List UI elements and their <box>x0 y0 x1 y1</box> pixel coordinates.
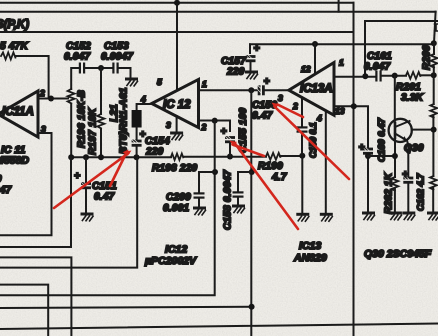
node: dot at pin12 tap <box>312 41 318 47</box>
wire: Q30 collector to right column <box>412 129 434 131</box>
node: dot base/R202 <box>392 153 398 159</box>
wire: right border vertical from bus2 <box>434 12 436 43</box>
ground pin4 <box>321 214 332 221</box>
capacitor C151 (electrolytic) <box>81 182 91 189</box>
wire: L21 to C154 <box>136 128 138 140</box>
wire: pin12 riser IC13A <box>314 44 316 74</box>
capacitor C162 (electrolytic) <box>403 177 413 184</box>
wire: vertical x365 from H21 to pin1 node <box>364 21 366 76</box>
resistor R202 vertical zigzag <box>392 177 399 191</box>
wire: C154 to H157 <box>136 147 138 157</box>
resistor R-horizontal zigzag after C161 <box>406 72 420 79</box>
op-amp U-IC12 triangle <box>152 79 199 127</box>
red arrowhead C154 a <box>124 151 132 156</box>
node: dot H157 right end <box>299 153 305 159</box>
wire: supply line y=44 to C157 and pin12 <box>250 43 434 45</box>
red arrowhead C154 b <box>123 150 129 156</box>
ground right column <box>429 213 438 220</box>
node: dot C158 tap <box>249 169 255 175</box>
op-amp U-IC11A triangle <box>0 91 38 137</box>
node: dot x365 <box>362 73 368 79</box>
node: dot C209 tap <box>212 169 218 175</box>
wire: IC11A pin2 <box>38 98 68 100</box>
wire: H21 top right feed <box>365 20 438 22</box>
node: dot bottom junction <box>249 304 255 310</box>
wire: C209 to ground <box>198 199 200 206</box>
wire: IC12 pin1 line to C156 <box>199 89 258 91</box>
resistor R196 vertical zigzag <box>68 89 75 103</box>
red arrow line to C154 short <box>110 153 127 187</box>
wire: C151 leads <box>85 157 87 212</box>
ground C153 <box>127 79 138 86</box>
red arrowhead C155 <box>230 141 237 147</box>
wire: IC12 pin4 to L21 <box>137 104 152 110</box>
wire: IC13A pin1 line <box>334 76 375 78</box>
transistor Q30 circle <box>389 119 412 142</box>
resistor R195 47K zigzag <box>1 52 15 59</box>
red arrow line to C154 long <box>54 153 129 208</box>
ground C151 <box>82 214 93 221</box>
wire: right column verticals <box>432 43 435 211</box>
wire: C156 to IC13A pin3 <box>266 89 290 91</box>
wire: C157 to ground <box>250 63 252 71</box>
transistor Q30 internals <box>394 123 397 138</box>
cut-off marks right edge <box>435 24 438 31</box>
wire: stub vertical top right <box>338 0 340 12</box>
resistor R197 vertical zigzag <box>97 114 104 128</box>
wire: horizontal line under S(P,K) <box>0 31 354 33</box>
node: dot between C152 C153 <box>98 65 104 71</box>
wire: vertical from bus1 down (long border at x=354) <box>353 3 355 336</box>
wire: C161 to dot <box>382 75 406 77</box>
node: dot R196 bottom <box>68 154 74 160</box>
node: dot pin2 node <box>212 118 218 124</box>
node: dot C160 base link <box>365 153 371 159</box>
node: dot base feed <box>392 73 398 79</box>
wire: R197 bottom to H157 <box>100 129 102 158</box>
node: dot at R200 top <box>431 40 437 46</box>
resistor R199 zigzag <box>266 153 280 160</box>
node: dot collector <box>431 127 437 133</box>
node: dot feedback tap pin1 <box>248 87 254 93</box>
wire: IC11A pin3 to left bus <box>0 133 52 235</box>
wire: C158 to ground <box>237 198 239 204</box>
wire: left bus H257 down x71 <box>0 257 71 336</box>
ground C160 <box>364 213 375 220</box>
wire: 47K to corner <box>16 56 49 99</box>
transistor Q30 emitter arrow <box>403 136 407 140</box>
node: dot right column pin1 level <box>431 72 437 78</box>
wire: Q30 base up to dot <box>394 76 396 123</box>
wire: left bus H307 <box>0 307 252 308</box>
node: junction dot pin5 riser on bus1 <box>174 0 180 6</box>
inductor L21 <box>132 110 142 128</box>
capacitor C157 (electrolytic) <box>246 55 256 62</box>
wire: C209 branch <box>199 172 215 192</box>
capacitor C158 <box>233 191 244 197</box>
node: dot pin2 node <box>48 96 54 102</box>
wire: IC12 pin2 line <box>199 121 231 132</box>
ground C157 <box>247 72 258 79</box>
wire: zigzag to right column <box>420 74 433 76</box>
wire: IC13A pin4 down to ground <box>325 111 327 213</box>
wire: C162 to ground <box>407 184 409 211</box>
wire: feedback vertical x251.5 <box>250 90 252 336</box>
red line from C155 short <box>233 145 265 157</box>
op-amp U-IC13A triangle <box>289 63 334 116</box>
node: dot C155 tap <box>227 154 233 160</box>
red arrowhead C156 <box>272 103 279 109</box>
capacitor C152 <box>79 63 85 74</box>
wire: Q30 emitter down <box>407 141 408 177</box>
capacitor C209 <box>194 192 205 198</box>
node: dot R197 bottom <box>98 154 104 160</box>
wire: left bus H247 <box>0 157 71 247</box>
wire: C155 bottom <box>229 144 231 157</box>
capacitor C155 (electrolytic) <box>225 136 235 143</box>
wire: R197 top lead <box>100 68 102 114</box>
wire: C160 to base node <box>368 155 395 157</box>
capacitor C154 (electrolytic) <box>132 140 142 147</box>
capacitor C159 <box>297 126 308 132</box>
wire: R196 bottom to H157 <box>70 104 72 158</box>
ground R202 <box>390 213 401 220</box>
wire: C157 branch down <box>249 44 251 53</box>
wire: IC12 pin5 riser <box>176 3 178 91</box>
wire: C159 bottom to H157 end <box>301 133 303 156</box>
wire: bottom full-width line <box>0 324 438 330</box>
wire: left bus H267 to x137 riser <box>0 157 137 267</box>
resistor R200 vertical zigzag <box>431 54 438 67</box>
resistor R201 vertical zigzag <box>430 104 437 117</box>
wire: C152 right to dot <box>86 67 113 69</box>
capacitor C153 <box>112 63 118 74</box>
ground pin2 node IC13A <box>298 214 309 221</box>
wire: IC13A pin13 line <box>334 106 368 147</box>
ground C162 <box>404 213 415 220</box>
capacitor C161 <box>375 71 381 82</box>
ground C209 <box>195 208 206 215</box>
capacitor C160 (electrolytic) <box>363 148 373 155</box>
wire: C160 bottom to ground <box>367 155 369 211</box>
node: dot L21/C154 tap <box>134 154 140 160</box>
ground C158 <box>234 206 245 213</box>
red line from C156 long <box>275 107 350 180</box>
wire: Q30 base down <box>394 138 396 177</box>
wire: main node bus H157 <box>71 156 302 157</box>
wire: vertical x215 down <box>0 121 215 296</box>
wire: left bus H285 down x48 <box>0 285 48 336</box>
red line from C156 short <box>278 105 304 118</box>
resistor right-edge lower zigzag <box>430 176 437 190</box>
node: dot C151 tap <box>83 154 89 160</box>
wire: H157 end down to ground <box>301 156 303 212</box>
wire: C159 top from IC13A pin2 <box>301 97 303 125</box>
wire: C158 branch <box>238 172 252 191</box>
red line from C155 long <box>235 144 298 230</box>
node: dot pin13 on border vertical <box>351 103 357 109</box>
capacitor C156 (electrolytic horizontal) <box>258 85 265 95</box>
wire: C153 right to ground <box>119 68 131 77</box>
resistor R198 zigzag <box>171 154 183 160</box>
wire: IC12 pin3 down <box>176 116 178 131</box>
wire: top bus line 2 <box>0 11 436 13</box>
wire: top bus line 1 <box>0 2 354 4</box>
wire: C152 left lead down to R196 <box>71 68 78 89</box>
ground IC12 pin3 <box>172 133 183 140</box>
wire: R202 to ground <box>394 189 396 211</box>
red annotation lines <box>54 103 349 230</box>
